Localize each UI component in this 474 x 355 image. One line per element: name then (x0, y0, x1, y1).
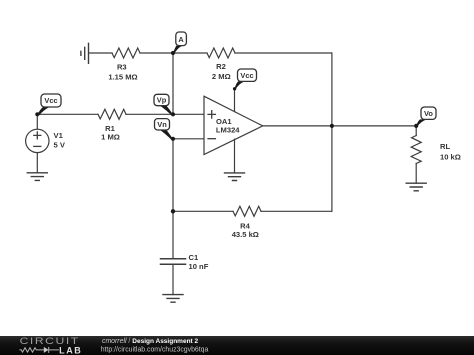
node label Vcc (at V1) (37, 94, 61, 116)
svg-text:1 MΩ: 1 MΩ (101, 132, 120, 141)
label RL value (440, 142, 461, 162)
label OA1 (216, 117, 240, 135)
svg-text:43.5 kΩ: 43.5 kΩ (232, 230, 259, 239)
svg-text:Vp: Vp (157, 96, 167, 105)
wire junction to C1 (172, 211, 174, 258)
wire Vo to RL (415, 126, 417, 136)
svg-text:V1: V1 (54, 131, 64, 140)
wire feedback vertical (331, 53, 333, 211)
svg-text:Vo: Vo (424, 109, 433, 118)
wire op-amp output (263, 125, 417, 127)
footer bar (0, 336, 474, 355)
svg-text:RL: RL (440, 142, 450, 151)
op-amp power pin top (234, 89, 236, 112)
footer logo resistor+diode (19, 347, 58, 353)
svg-text:LM324: LM324 (216, 126, 240, 135)
junction Vp node (171, 112, 175, 116)
svg-text:R2: R2 (216, 62, 226, 71)
ground (under op-amp) (225, 173, 245, 181)
wire Vn to op-amp - input (173, 138, 204, 140)
svg-text:OA1: OA1 (216, 117, 232, 126)
voltage source V1 (26, 129, 49, 152)
svg-text:A: A (178, 35, 184, 44)
ground (top-left, rotated) (81, 43, 89, 63)
junction output/feedback (330, 124, 334, 128)
capacitor C1 (161, 259, 186, 265)
label R1 value (101, 124, 120, 142)
wire Vcc node to V1 (36, 114, 38, 129)
ground (under RL) (406, 183, 426, 191)
svg-text:http://circuitlab.com/chuz3cgv: http://circuitlab.com/chuz3cgvb6tqa (101, 346, 209, 353)
resistor R2 (207, 48, 235, 58)
svg-text:10 kΩ: 10 kΩ (440, 153, 461, 162)
svg-text:cmorrell / Design Assignment 2: cmorrell / Design Assignment 2 (102, 338, 199, 345)
op-amp power pin bottom (234, 139, 236, 173)
label C1 value (189, 253, 209, 271)
junction Vo node (414, 124, 418, 128)
svg-text:2 MΩ: 2 MΩ (212, 72, 231, 81)
resistor R3 (112, 48, 140, 58)
node label Vcc (op-amp power) (233, 69, 257, 91)
wire ground to R3 (89, 52, 112, 54)
resistor R4 (233, 206, 261, 216)
ground (under V1) (27, 173, 47, 181)
wire R1 to op-amp + input (126, 113, 204, 115)
wire R3 to node A (140, 52, 207, 54)
resistor R1 (98, 109, 126, 119)
wire R2 to feedback line (235, 52, 332, 54)
resistor RL (411, 136, 421, 164)
label R2 value (212, 62, 231, 81)
wire C1 to ground (172, 265, 174, 295)
svg-text:Vcc: Vcc (240, 71, 253, 80)
svg-text:5 V: 5 V (54, 141, 66, 150)
svg-text:Vcc: Vcc (44, 96, 57, 105)
junction Vn node (171, 137, 175, 141)
wire R4 to Vn junction (173, 210, 233, 212)
svg-text:LAB: LAB (59, 345, 82, 355)
svg-text:R3: R3 (117, 63, 127, 72)
node label Vo (416, 107, 436, 127)
wire V1 to ground (36, 153, 38, 173)
junction node A (171, 51, 175, 55)
wire R4 right segment (261, 210, 332, 212)
ground (under C1) (163, 295, 183, 303)
svg-text:C1: C1 (189, 253, 199, 262)
junction R4/C1 (171, 209, 175, 213)
node label Vn (155, 119, 173, 140)
wire node A down to Vp (172, 53, 174, 114)
svg-text:Vn: Vn (157, 120, 167, 129)
node label Vp (154, 94, 173, 115)
label R4 value (232, 221, 259, 238)
node label A (173, 32, 186, 54)
op-amp OA1 (204, 96, 263, 154)
wire RL to ground (415, 164, 417, 184)
wire Vn down to R4/C1 junction (172, 139, 174, 212)
junction Vcc node (35, 112, 39, 116)
svg-text:10 nF: 10 nF (189, 262, 209, 271)
label V1 value (54, 131, 66, 150)
svg-text:1.15 MΩ: 1.15 MΩ (108, 72, 137, 81)
label R3 value (108, 63, 137, 82)
wire Vcc to R1 (37, 113, 98, 115)
